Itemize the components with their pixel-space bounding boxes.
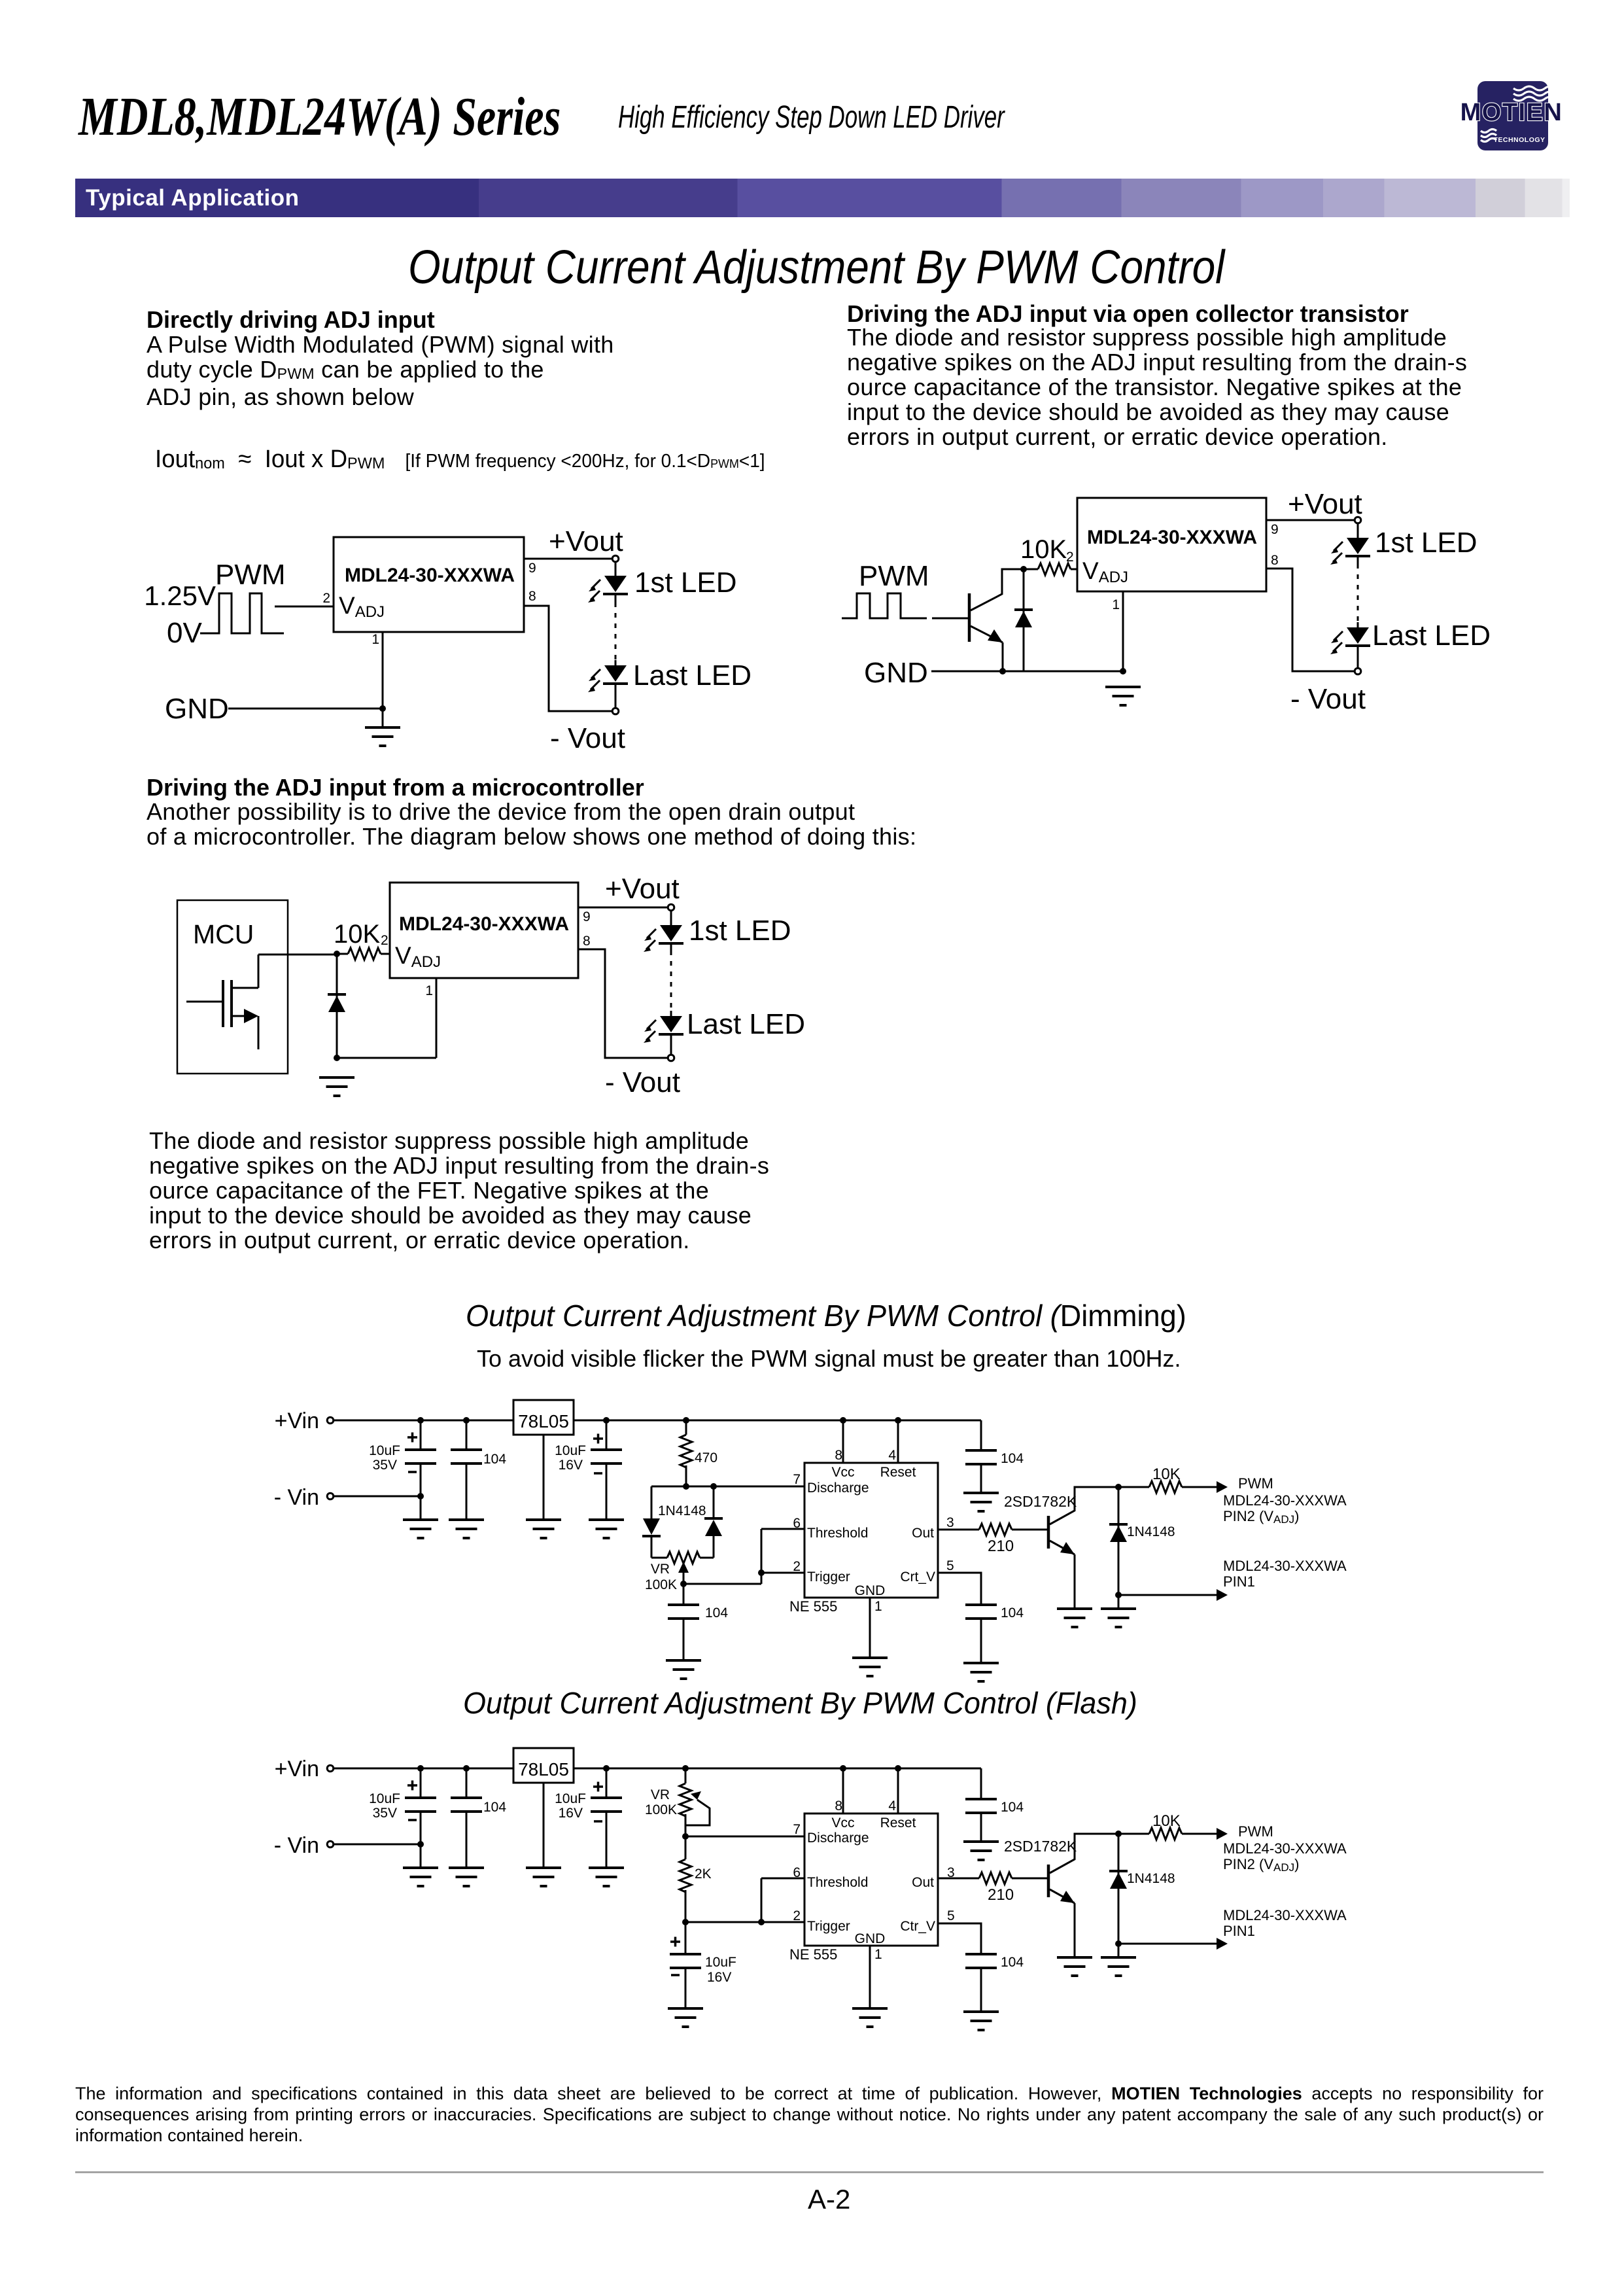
svg-text:10K: 10K bbox=[1020, 535, 1067, 564]
svg-text:10uF: 10uF bbox=[369, 1791, 400, 1806]
svg-text:PIN2 (VADJ): PIN2 (VADJ) bbox=[1223, 1508, 1299, 1526]
svg-text:2: 2 bbox=[1066, 550, 1074, 565]
svg-text:Threshold: Threshold bbox=[807, 1526, 868, 1541]
svg-text:9: 9 bbox=[528, 561, 536, 576]
svg-text:2SD1782K: 2SD1782K bbox=[1004, 1493, 1077, 1510]
svg-text:NE 555: NE 555 bbox=[789, 1946, 837, 1963]
svg-text:104: 104 bbox=[1001, 1800, 1024, 1815]
svg-text:1.25V: 1.25V bbox=[144, 580, 216, 611]
svg-text:104: 104 bbox=[705, 1605, 728, 1621]
svg-text:Trigger: Trigger bbox=[807, 1569, 850, 1585]
svg-text:Out: Out bbox=[912, 1875, 934, 1890]
svg-text:2: 2 bbox=[793, 1908, 801, 1923]
svg-text:1st LED: 1st LED bbox=[1375, 527, 1477, 559]
svg-text:8: 8 bbox=[583, 934, 591, 949]
svg-text:35V: 35V bbox=[373, 1458, 397, 1473]
svg-text:MDL24-30-XXXWA: MDL24-30-XXXWA bbox=[1223, 1840, 1347, 1857]
svg-text:78L05: 78L05 bbox=[518, 1759, 569, 1779]
svg-text:VR: VR bbox=[651, 1787, 670, 1802]
svg-text:+Vout: +Vout bbox=[1288, 488, 1362, 520]
svg-text:9: 9 bbox=[583, 909, 591, 924]
svg-text:1: 1 bbox=[874, 1599, 882, 1614]
svg-text:10uF: 10uF bbox=[555, 1791, 586, 1806]
svg-text:8: 8 bbox=[835, 1798, 842, 1813]
svg-text:2K: 2K bbox=[695, 1866, 712, 1882]
svg-text:104: 104 bbox=[483, 1452, 506, 1467]
svg-text:Discharge: Discharge bbox=[807, 1480, 869, 1496]
svg-text:+Vin: +Vin bbox=[275, 1409, 319, 1433]
svg-text:16V: 16V bbox=[707, 1970, 731, 1985]
svg-text:Reset: Reset bbox=[880, 1465, 916, 1480]
svg-text:4: 4 bbox=[888, 1798, 896, 1813]
svg-text:16V: 16V bbox=[559, 1458, 583, 1473]
svg-text:MDL24-30-XXXWA: MDL24-30-XXXWA bbox=[1223, 1907, 1347, 1923]
svg-text:1st LED: 1st LED bbox=[634, 567, 737, 599]
svg-text:Last LED: Last LED bbox=[687, 1008, 805, 1040]
svg-text:Vcc: Vcc bbox=[831, 1465, 854, 1480]
svg-text:8: 8 bbox=[835, 1448, 842, 1463]
svg-text:10uF: 10uF bbox=[555, 1443, 586, 1458]
svg-text:35V: 35V bbox=[373, 1806, 397, 1821]
svg-text:VADJ: VADJ bbox=[395, 942, 441, 971]
svg-text:104: 104 bbox=[1001, 1955, 1024, 1970]
svg-text:MDL24-30-XXXWA: MDL24-30-XXXWA bbox=[399, 913, 569, 935]
svg-text:2: 2 bbox=[381, 933, 389, 948]
svg-text:8: 8 bbox=[528, 589, 536, 604]
svg-text:MDL24-30-XXXWA: MDL24-30-XXXWA bbox=[1223, 1492, 1347, 1509]
svg-text:VADJ: VADJ bbox=[339, 592, 385, 621]
svg-text:+Vout: +Vout bbox=[605, 873, 680, 905]
svg-text:2: 2 bbox=[793, 1559, 801, 1574]
svg-text:1: 1 bbox=[1112, 597, 1120, 612]
svg-text:VADJ: VADJ bbox=[1082, 557, 1128, 586]
svg-text:9: 9 bbox=[1271, 522, 1279, 537]
svg-text:- Vin: - Vin bbox=[274, 1833, 319, 1858]
svg-text:2SD1782K: 2SD1782K bbox=[1004, 1838, 1077, 1855]
svg-text:MDL24-30-XXXWA: MDL24-30-XXXWA bbox=[1087, 527, 1257, 548]
svg-text:Ctr_V: Ctr_V bbox=[900, 1919, 935, 1934]
svg-text:10K: 10K bbox=[1152, 1465, 1181, 1483]
svg-text:PWM: PWM bbox=[215, 559, 286, 591]
svg-text:210: 210 bbox=[988, 1537, 1014, 1555]
svg-text:104: 104 bbox=[483, 1800, 506, 1815]
svg-text:2: 2 bbox=[322, 591, 330, 606]
svg-text:MDL24-30-XXXWA: MDL24-30-XXXWA bbox=[1223, 1558, 1347, 1574]
svg-text:1: 1 bbox=[425, 983, 433, 998]
svg-text:5: 5 bbox=[947, 1908, 955, 1923]
svg-text:4: 4 bbox=[888, 1448, 896, 1463]
svg-text:PWM: PWM bbox=[1238, 1823, 1273, 1840]
svg-text:10uF: 10uF bbox=[369, 1443, 400, 1458]
svg-text:PIN1: PIN1 bbox=[1223, 1923, 1255, 1939]
svg-text:Discharge: Discharge bbox=[807, 1831, 869, 1846]
svg-text:104: 104 bbox=[1001, 1451, 1024, 1466]
svg-text:6: 6 bbox=[793, 1516, 801, 1531]
svg-text:1: 1 bbox=[874, 1947, 882, 1962]
svg-text:10K: 10K bbox=[1152, 1812, 1181, 1830]
svg-text:1N4148: 1N4148 bbox=[1127, 1871, 1175, 1886]
svg-text:470: 470 bbox=[695, 1450, 717, 1465]
svg-text:Trigger: Trigger bbox=[807, 1919, 850, 1934]
svg-text:PIN2 (VADJ): PIN2 (VADJ) bbox=[1223, 1856, 1299, 1874]
svg-text:6: 6 bbox=[793, 1865, 801, 1880]
svg-text:10uF: 10uF bbox=[705, 1955, 736, 1970]
svg-text:MDL24-30-XXXWA: MDL24-30-XXXWA bbox=[345, 565, 515, 586]
svg-text:0V: 0V bbox=[167, 617, 202, 649]
svg-text:MCU: MCU bbox=[193, 919, 254, 949]
svg-text:Vcc: Vcc bbox=[831, 1815, 854, 1831]
svg-text:3: 3 bbox=[946, 1515, 954, 1530]
svg-text:1: 1 bbox=[371, 632, 379, 647]
svg-text:7: 7 bbox=[793, 1472, 801, 1487]
svg-text:PIN1: PIN1 bbox=[1223, 1573, 1255, 1590]
svg-text:5: 5 bbox=[946, 1558, 954, 1573]
svg-text:16V: 16V bbox=[559, 1806, 583, 1821]
svg-text:VR: VR bbox=[651, 1562, 670, 1577]
svg-text:- Vout: - Vout bbox=[550, 722, 625, 754]
svg-text:GND: GND bbox=[855, 1583, 886, 1598]
svg-text:100K: 100K bbox=[645, 1577, 677, 1592]
svg-text:104: 104 bbox=[1001, 1605, 1024, 1621]
svg-text:GND: GND bbox=[864, 657, 928, 689]
svg-text:Out: Out bbox=[912, 1526, 934, 1541]
svg-text:Last LED: Last LED bbox=[1372, 620, 1491, 652]
svg-text:1st LED: 1st LED bbox=[689, 915, 791, 947]
svg-text:7: 7 bbox=[793, 1822, 801, 1837]
svg-text:78L05: 78L05 bbox=[518, 1411, 569, 1431]
svg-text:3: 3 bbox=[947, 1865, 955, 1880]
svg-text:PWM: PWM bbox=[1238, 1475, 1273, 1492]
svg-text:+Vin: +Vin bbox=[275, 1757, 319, 1781]
svg-text:NE 555: NE 555 bbox=[789, 1598, 837, 1615]
svg-text:Reset: Reset bbox=[880, 1815, 916, 1831]
svg-text:PWM: PWM bbox=[859, 560, 929, 592]
svg-text:210: 210 bbox=[988, 1886, 1014, 1904]
svg-text:- Vout: - Vout bbox=[1290, 683, 1366, 715]
svg-text:+Vout: +Vout bbox=[549, 525, 623, 557]
svg-text:Threshold: Threshold bbox=[807, 1875, 868, 1890]
svg-text:100K: 100K bbox=[645, 1802, 677, 1817]
svg-text:10K: 10K bbox=[334, 920, 380, 949]
svg-text:Last LED: Last LED bbox=[633, 659, 752, 692]
svg-text:1N4148: 1N4148 bbox=[658, 1503, 706, 1518]
svg-text:GND: GND bbox=[855, 1931, 886, 1946]
svg-text:1N4148: 1N4148 bbox=[1127, 1524, 1175, 1539]
svg-text:- Vin: - Vin bbox=[274, 1485, 319, 1510]
svg-text:- Vout: - Vout bbox=[605, 1066, 680, 1098]
svg-text:Crt_V: Crt_V bbox=[900, 1569, 935, 1585]
svg-text:GND: GND bbox=[165, 693, 229, 725]
svg-text:8: 8 bbox=[1271, 553, 1279, 568]
